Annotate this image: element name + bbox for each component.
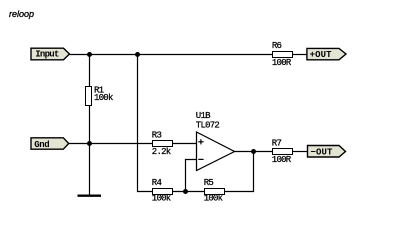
ground	[78, 194, 102, 196]
resistor R3	[152, 131, 173, 158]
wire R4 to R5	[173, 191, 205, 193]
junction dot input/R1	[87, 52, 92, 57]
wire R6 to +OUT	[293, 54, 308, 56]
svg-text:R3: R3	[152, 131, 162, 141]
wire Gnd rail to R3	[69, 143, 152, 145]
resistor R1	[86, 85, 113, 105]
wire R3 to op-amp +in	[173, 143, 197, 145]
wire top rail down to R4	[138, 55, 153, 192]
op-amp U1B	[196, 111, 235, 171]
wire op-amp output to R7	[235, 151, 273, 153]
wire output feedback down to R5	[225, 152, 254, 192]
wire op-amp -in feedback	[186, 160, 197, 192]
wire top rail Input to R6	[70, 54, 273, 56]
resistor R7	[272, 138, 293, 164]
svg-text:Gnd: Gnd	[34, 140, 49, 150]
connector Gnd	[31, 138, 69, 150]
svg-text:100R: 100R	[272, 58, 292, 68]
wire R1 bottom to ground symbol	[89, 105, 91, 196]
svg-text:100k: 100k	[152, 193, 171, 203]
junction dot output node	[251, 149, 256, 154]
svg-text:R4: R4	[152, 178, 162, 188]
svg-text:U1B: U1B	[196, 111, 211, 121]
resistor R6	[272, 41, 293, 68]
connector Input	[31, 48, 70, 60]
svg-text:reloop: reloop	[9, 9, 34, 19]
junction dot -in node	[183, 189, 188, 194]
resistor R4	[152, 178, 173, 203]
svg-text:2.2k: 2.2k	[152, 147, 171, 157]
resistor R5	[204, 178, 225, 203]
svg-text:R6: R6	[272, 41, 282, 51]
svg-text:+OUT: +OUT	[310, 50, 333, 60]
svg-text:100k: 100k	[94, 93, 113, 103]
junction dot input/R4 branch	[135, 52, 140, 57]
svg-text:Input: Input	[35, 50, 59, 60]
connector -OUT	[308, 146, 346, 158]
svg-text:100R: 100R	[272, 155, 292, 165]
svg-text:R7: R7	[272, 138, 282, 148]
junction dot gnd	[87, 141, 92, 146]
svg-text:−OUT: −OUT	[311, 148, 334, 158]
wire top rail to R1 top	[89, 55, 91, 87]
wire R7 to -OUT	[292, 151, 308, 153]
svg-text:TL072: TL072	[196, 121, 220, 131]
connector +OUT	[307, 48, 346, 60]
svg-text:R5: R5	[204, 178, 214, 188]
svg-text:100k: 100k	[204, 193, 223, 203]
